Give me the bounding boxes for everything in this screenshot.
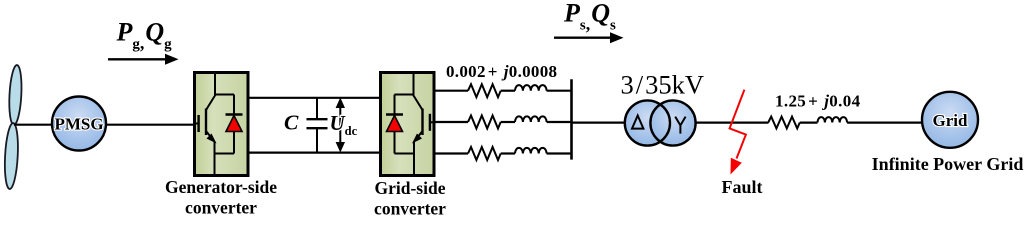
resistor Rline — [768, 117, 800, 129]
wind turbine blade bottom — [3, 123, 19, 190]
wire C to bus — [547, 152, 573, 154]
inductor LC — [515, 148, 547, 154]
wire top branch U1 — [214, 94, 234, 96]
svg-text:converter: converter — [185, 198, 257, 218]
resistor RB — [468, 116, 501, 129]
wire to grid — [847, 121, 922, 123]
svg-text:1.25+j0.04: 1.25+j0.04 — [775, 92, 861, 111]
three-phase line C wire — [434, 152, 468, 154]
wire top stub U2 — [413, 74, 415, 97]
wire emitter down U1 — [214, 141, 216, 175]
capacitor C — [307, 98, 328, 153]
generator PMSG — [52, 97, 106, 151]
wire B mid — [501, 121, 515, 123]
diode D2 — [386, 95, 403, 154]
wire B to bus — [547, 121, 573, 123]
wire top branch U2 — [395, 94, 415, 96]
three-phase line A wire — [434, 90, 468, 92]
svg-text:Fault: Fault — [721, 177, 762, 197]
wire bottom branch U1 — [215, 153, 235, 155]
IGBT Q2 — [412, 95, 436, 144]
svg-text:Grid-side: Grid-side — [375, 178, 446, 198]
svg-text:PMSG: PMSG — [54, 115, 103, 134]
wire A mid — [501, 90, 515, 92]
wire top stub U1 — [214, 74, 216, 97]
svg-text:C: C — [284, 111, 299, 135]
DC bus top rail — [248, 97, 380, 99]
wire bottom branch U2 — [395, 153, 415, 155]
wire mid line — [800, 121, 818, 123]
IGBT Q1 — [193, 95, 217, 144]
svg-text:Generator-side: Generator-side — [165, 177, 277, 197]
svg-text:3/35kV: 3/35kV — [621, 69, 705, 99]
three-phase line B wire — [434, 121, 468, 123]
resistor RC — [468, 147, 501, 160]
svg-text:converter: converter — [374, 199, 446, 219]
wire bus to transformer — [572, 121, 626, 123]
fault bolt — [730, 90, 746, 175]
wire hub to PMSG — [14, 124, 53, 126]
arrow Pg,Qg — [108, 54, 179, 65]
resistor RA — [468, 84, 501, 97]
wire PMSG to generator-side converter — [106, 124, 194, 126]
delta winding symbol — [632, 116, 643, 129]
transformer T1 — [625, 100, 696, 145]
svg-text:Grid: Grid — [933, 111, 968, 130]
converter U1 generator-side box — [195, 73, 249, 176]
diode D1 — [226, 95, 243, 154]
wind turbine blade top — [8, 65, 23, 126]
Y winding symbol — [675, 117, 685, 134]
converter U2 grid-side box — [381, 73, 435, 176]
wire transformer to line impedance — [696, 121, 769, 123]
arrow Udc — [336, 98, 345, 153]
svg-text:Infinite Power Grid: Infinite Power Grid — [872, 154, 1024, 174]
inductor Lline — [818, 117, 848, 122]
wire emitter down U2 — [413, 141, 415, 175]
wire C mid — [501, 152, 515, 154]
DC bus bottom rail — [248, 152, 380, 154]
bus bar node — [570, 79, 573, 159]
inductor LB — [515, 116, 547, 122]
grid source — [922, 92, 978, 148]
wire A to bus — [547, 90, 573, 92]
inductor LA — [515, 85, 547, 91]
arrow Ps,Qs — [554, 32, 624, 43]
